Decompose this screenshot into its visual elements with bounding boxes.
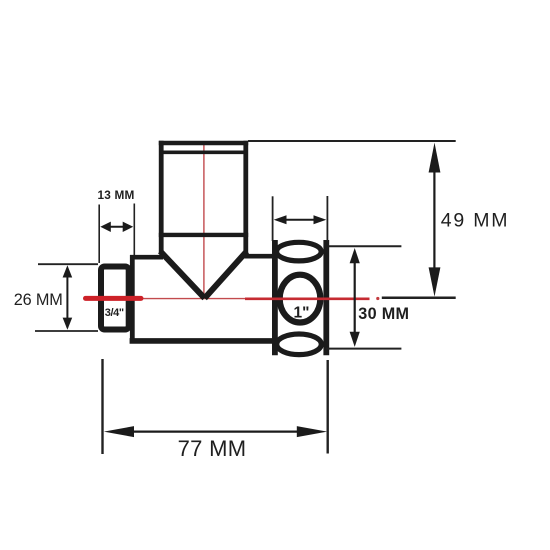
1 inch port top ellipse (277, 242, 322, 261)
1 inch port bottom ellipse (277, 334, 322, 355)
dim 26MM top reference line (38, 263, 98, 265)
centerline horizontal thick red segment (86, 296, 142, 301)
dim 26MM arrow line (66, 268, 68, 328)
1 inch port left side (272, 240, 278, 355)
dim 77MM left arrowhead (104, 426, 134, 437)
dim 49MM top arrowhead (429, 143, 441, 173)
dim 30MM arrow line (354, 252, 356, 343)
dim 13MM left extension line (98, 205, 100, 264)
svg-text:49 MM: 49 MM (441, 210, 510, 232)
dim 30MM bottom arrowhead (350, 332, 360, 347)
dim 77MM right arrowhead (297, 426, 327, 437)
svg-text:30 MM: 30 MM (358, 305, 409, 323)
dim 30MM bottom reference line (326, 348, 401, 350)
centerline horizontal medium red segment (245, 297, 370, 300)
svg-text:77 MM: 77 MM (178, 436, 247, 461)
body bottom line (130, 338, 274, 344)
dim 1 inch width left arrowhead (274, 215, 287, 224)
dim 77MM left extension line (101, 359, 103, 454)
body left edge (130, 255, 135, 343)
3/4 inch threaded port outline (101, 267, 129, 330)
svg-text:3/4": 3/4" (105, 307, 124, 319)
dim 77MM arrow line (130, 431, 300, 433)
valve bonnet top line (159, 141, 248, 145)
dim 49MM bottom reference line (382, 296, 456, 299)
dim 49MM top reference line (248, 140, 456, 142)
body top-right line (245, 254, 276, 259)
1 inch port middle circle (280, 275, 321, 323)
svg-text:13 MM: 13 MM (98, 188, 135, 202)
centerline red end dot (376, 297, 379, 300)
valve bonnet bottom line (159, 233, 248, 237)
dim 26MM top arrowhead (63, 265, 73, 277)
valve cone right diagonal (205, 251, 247, 298)
dim 1 inch width arrow line (280, 219, 320, 221)
dim 1 inch width right arrowhead (314, 215, 327, 224)
valve bonnet left wall (159, 141, 164, 253)
valve bonnet right wall (243, 141, 248, 253)
centerline horizontal thin red (143, 298, 246, 300)
dim 49MM bottom arrowhead (429, 267, 441, 296)
dim 30MM top arrowhead (350, 248, 360, 263)
valve cone left diagonal (160, 251, 204, 298)
dim 49MM arrow line (433, 150, 435, 290)
dim 13MM arrow line (106, 226, 128, 228)
dim 1 inch width left extension line (272, 196, 274, 241)
dim 13MM right arrowhead (123, 222, 134, 232)
dim 26MM bottom reference line (35, 330, 98, 332)
dim 13MM right extension line (133, 204, 135, 256)
dim 26MM bottom arrowhead (63, 318, 73, 330)
body top-left line (130, 255, 163, 260)
valve bonnet collar line (159, 151, 248, 155)
svg-text:1": 1" (294, 305, 310, 322)
dim 77MM right extension line (327, 360, 329, 454)
dim 13MM left arrowhead (100, 222, 111, 232)
centerline vertical red (203, 141, 205, 298)
1 inch port right side (323, 240, 329, 355)
dim 1 inch width right extension line (326, 196, 328, 241)
dim 30MM top reference line (329, 245, 402, 247)
svg-text:26 MM: 26 MM (14, 291, 63, 309)
